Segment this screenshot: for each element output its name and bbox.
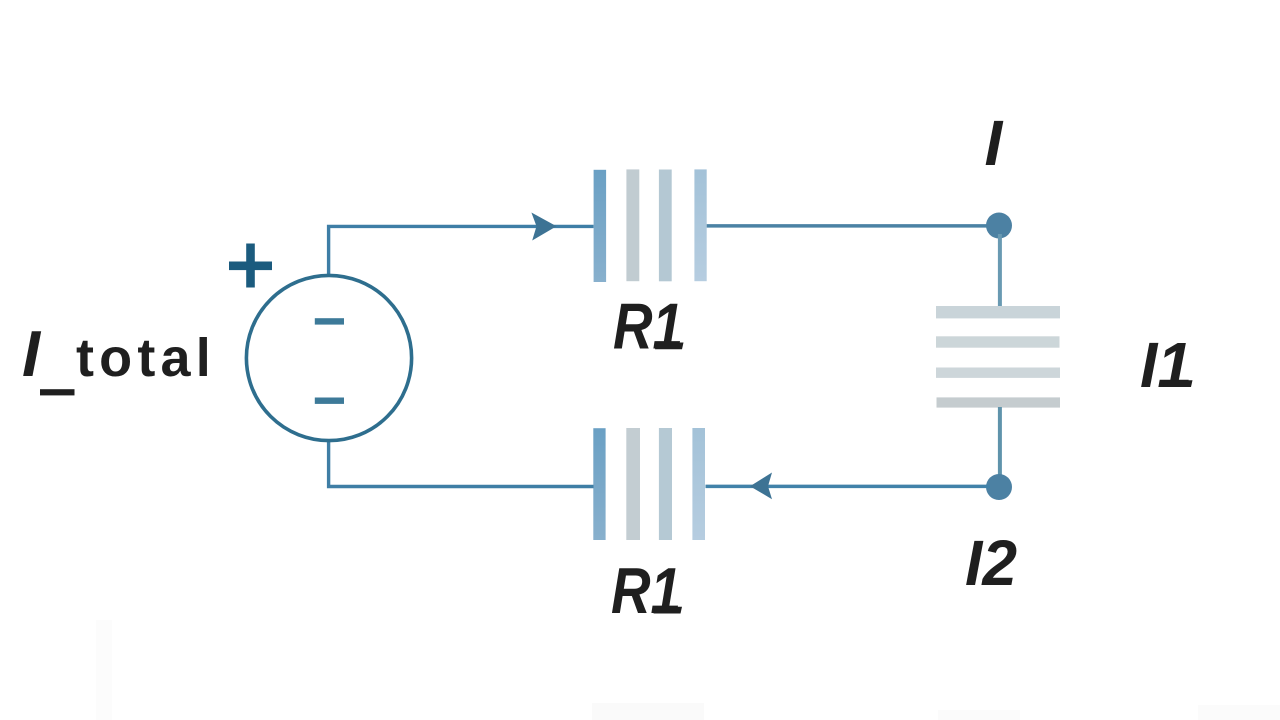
wire: R1 (bottom) back to source (bottom-left corner run) bbox=[329, 441, 594, 487]
resistor R1 (top, four vertical bars) bbox=[594, 169, 707, 282]
minus marker (upper, inside source) bbox=[315, 318, 344, 324]
svg-text:I2: I2 bbox=[965, 527, 1017, 599]
node I (junction dot, top right) bbox=[986, 213, 1012, 239]
capacitor I1 (four horizontal plates) bbox=[936, 306, 1060, 408]
svg-text:R1: R1 bbox=[613, 290, 683, 363]
svg-text:I: I bbox=[985, 107, 1004, 179]
foot serif of digit 1 in bottom R1 bbox=[654, 607, 683, 614]
minus marker (lower, inside source) bbox=[315, 398, 344, 404]
resistor R1 (bottom, four vertical bars) bbox=[593, 428, 705, 540]
foot serif of digit 1 in top R1 bbox=[655, 343, 684, 350]
wire: R1 (top) to node I bbox=[707, 224, 990, 228]
faint compression artifacts along bottom edge (decorative) bbox=[592, 703, 704, 720]
wire: capacitor I1 down to node I2 bbox=[998, 407, 1002, 478]
svg-text:I1: I1 bbox=[1140, 329, 1192, 401]
wire: node I down to capacitor I1 bbox=[998, 234, 1002, 307]
svg-text:R1: R1 bbox=[611, 554, 681, 627]
node I2 (junction dot, bottom right) bbox=[986, 474, 1012, 500]
arrow on top wire (pointing right) bbox=[531, 213, 556, 241]
wire: source top stub and top horizontal run to R1 (top) bbox=[329, 226, 594, 274]
plus terminal marker bbox=[229, 244, 272, 288]
underscore of I_total bbox=[40, 389, 75, 395]
arrow on bottom wire (pointing left) bbox=[750, 473, 772, 500]
current source I_total (circle) bbox=[246, 275, 411, 440]
wire: node I2 to R1 (bottom) bbox=[706, 485, 991, 489]
foot serif of digit 1 in I1 bbox=[1163, 380, 1193, 387]
